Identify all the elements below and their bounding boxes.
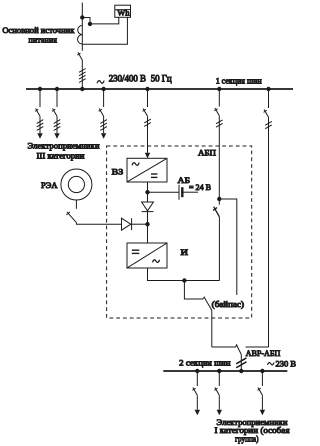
bus2 feeder 3: wire, breaker, arrow bbox=[258, 371, 266, 415]
label: Электроприемники III категории bbox=[28, 141, 100, 161]
node: DC node at battery tap bbox=[146, 191, 149, 194]
node: inverter output junction bbox=[183, 279, 186, 282]
wire: wattmeter current connection bbox=[82, 17, 127, 44]
node: direct line feeder on bus 1 bbox=[267, 87, 270, 90]
wire: rectifier output to DC node bbox=[147, 182, 149, 202]
UPS enclosure: dashed box АБП bbox=[107, 146, 252, 318]
node: ATS connection on bus 2 bbox=[240, 369, 243, 372]
wire: reserve to inverter output bbox=[218, 217, 220, 281]
battery АБ plates bbox=[179, 185, 182, 200]
label: Электроприемники I категории (особая группа) bbox=[215, 417, 290, 444]
bus2 feeder 2: wire, breaker, arrow bbox=[214, 371, 222, 415]
bus: 1 section busbar bbox=[26, 88, 293, 90]
wattmeter Wh box bbox=[115, 5, 131, 17]
reserve feeder: wire, breaker, 2 hash marks bbox=[214, 89, 222, 199]
label: ~ 230 В bbox=[268, 358, 297, 368]
node: consumer feeder 1 on bus 2 bbox=[196, 369, 199, 372]
svg-text:2 секция шин: 2 секция шин bbox=[179, 357, 231, 367]
svg-text:группа): группа) bbox=[235, 433, 259, 443]
wire: battery tap bbox=[148, 191, 179, 193]
svg-text:АВР-АБП: АВР-АБП bbox=[246, 348, 281, 358]
node: corner junction dot bbox=[88, 22, 91, 25]
node: DC junction before inverter bbox=[146, 223, 149, 226]
svg-text:= 24 В: = 24 В bbox=[189, 182, 211, 192]
node: UPS reserve feeder on bus 1 bbox=[218, 87, 221, 90]
wire: bypass step from output junction bbox=[184, 281, 202, 300]
wire: ATS bridge left bbox=[212, 346, 236, 348]
inverter И box bbox=[127, 243, 167, 268]
wire: РЭА drop bbox=[75, 200, 77, 209]
hash marks: 2 conductors on ATS drop bbox=[236, 358, 246, 368]
consumer РЭА circles bbox=[61, 169, 92, 200]
rectifier ВЗ box bbox=[127, 158, 167, 182]
node: UPS rectifier feeder on bus 1 bbox=[146, 87, 149, 90]
hash marks: 4 conductors on supply line bbox=[79, 69, 86, 83]
node: reserve line junction bbox=[218, 197, 221, 200]
node: feeder 2 on bus 1 bbox=[55, 87, 58, 90]
svg-text:50 Гц: 50 Гц bbox=[151, 73, 172, 83]
breaker: bypass switch blade bbox=[202, 297, 212, 311]
svg-text:Электроприемники: Электроприемники bbox=[28, 141, 100, 151]
feeder 1: wire, breaker, 3 hash marks, arrow bbox=[35, 89, 43, 139]
node: consumer feeder 3 on bus 2 bbox=[261, 369, 264, 372]
direct feeder to ATS: wire, breaker, 2 hash marks bbox=[264, 89, 272, 347]
node: feeder 1 on bus 1 bbox=[38, 87, 41, 90]
svg-text:1 секция шин: 1 секция шин bbox=[216, 76, 262, 86]
wire: inverter output bbox=[148, 268, 220, 281]
feeder 2: wire, breaker, 3 hash marks, arrow bbox=[52, 89, 60, 139]
wire: bypass down line bbox=[211, 310, 213, 347]
label: ~ 230/400 В 50 Гц bbox=[97, 73, 172, 83]
wire: battery right stub bbox=[184, 191, 199, 193]
wire: РЭА to diode VD2 bbox=[76, 223, 121, 225]
svg-text:АБП: АБП bbox=[198, 148, 216, 158]
wire: supply line below breaker to bus 1 bbox=[81, 60, 83, 89]
wire: ATS bridge right bbox=[246, 346, 269, 348]
feeder to rectifier: wire, breaker, 2 hash marks bbox=[143, 89, 151, 158]
node: supply entry on bus 1 bbox=[81, 87, 84, 90]
node: consumer feeder 2 on bus 2 bbox=[218, 369, 221, 372]
diode VD1 vertical bbox=[142, 202, 154, 212]
node: feeder 3 on bus 1 bbox=[102, 87, 105, 90]
wire: bypass branch bbox=[219, 199, 237, 295]
wire: wattmeter voltage connection bbox=[82, 17, 119, 24]
breaker: main supply switch bbox=[77, 52, 82, 60]
feeder 3: wire, breaker, 3 hash marks, arrow bbox=[99, 89, 107, 139]
wire: ATS to bus 2 bbox=[240, 355, 242, 371]
wire: diode VD2 to DC junction bbox=[132, 223, 148, 225]
breaker: РЭА switch bbox=[66, 212, 76, 223]
svg-text:РЭА: РЭА bbox=[41, 180, 58, 190]
label: Основной источник питания bbox=[2, 25, 75, 44]
svg-text:И: И bbox=[181, 247, 189, 257]
bus: 2 section busbar bbox=[163, 370, 287, 372]
node: tap to wattmeter voltage circuit bbox=[81, 16, 84, 19]
svg-text:III категории: III категории bbox=[37, 151, 85, 161]
breaker: static switch input bbox=[213, 207, 219, 217]
wire: diode to inverter input bbox=[147, 212, 149, 243]
svg-text:230/400 В: 230/400 В bbox=[109, 73, 146, 83]
svg-text:ВЗ: ВЗ bbox=[112, 167, 124, 177]
current transformer: two winding humps bbox=[78, 25, 83, 44]
diode VD2 horizontal bbox=[122, 218, 132, 230]
breaker: ATS blade АВР bbox=[236, 344, 242, 354]
bus2 feeder 1: wire, breaker, arrow bbox=[192, 371, 200, 415]
wire: incoming supply line top bbox=[81, 3, 83, 51]
wire: reserve junction stub bbox=[218, 199, 220, 205]
svg-text:Wh: Wh bbox=[117, 7, 130, 17]
svg-text:(байпас): (байпас) bbox=[212, 299, 244, 309]
svg-text:питания: питания bbox=[29, 34, 58, 44]
svg-text:230 В: 230 В bbox=[276, 358, 297, 368]
